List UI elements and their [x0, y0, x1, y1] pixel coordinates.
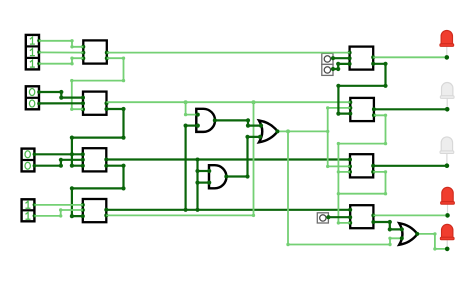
wire G2 feed vertical [195, 160, 199, 212]
wire U1 out2 to U2 in3 [70, 57, 125, 111]
wire pinA1 to U1 in1 [39, 39, 83, 48]
wire stub G1 in2 [184, 124, 200, 128]
wire pinD2 to U4 in2 [34, 208, 82, 217]
wire pinC1 to U3 in1 [34, 153, 82, 155]
input pin group A (value 111) [26, 35, 41, 70]
wire U2 out1 to U6 in1 [107, 101, 351, 103]
G2 output port [224, 175, 228, 179]
wire stub G2 in1 [195, 169, 211, 173]
wire U3 out1 to U7 in1 [106, 158, 350, 160]
input pin group D (value 11) [22, 199, 37, 221]
G1 in1 port [196, 113, 200, 117]
input pin group C (value 00) [22, 149, 37, 172]
wire pinA3 to U1 in3 [39, 57, 83, 66]
wire U6 out2 down to U8 in3 [337, 114, 388, 225]
subcircuit U5 [348, 47, 376, 70]
wire pinD1 to U4 in1 [34, 204, 82, 206]
wire U8 out2 to G4 in1 [373, 220, 404, 232]
wire U7 out1 to LED D3 [373, 165, 447, 167]
or-gate G3 [259, 121, 278, 143]
subcircuit U1 [81, 40, 109, 63]
LED D4 (on) [441, 187, 455, 217]
G1 output port [213, 118, 217, 122]
LED D1 (on) [440, 30, 454, 59]
wire pinB1 to U2 in1 [39, 90, 83, 100]
wire pinB2 to U2 in2 [39, 102, 83, 104]
LED D3 (off) [440, 137, 454, 168]
junction (U2 out1 / U4 out2 tie) [252, 100, 256, 104]
wire U5 out1 to LED D1 [373, 56, 444, 58]
input pin group B (value 00) [26, 86, 41, 109]
subcircuit U3 [81, 148, 109, 171]
and-gate G1 [196, 109, 215, 132]
output probe pin P1 (0) [322, 53, 333, 64]
wire G2 out to G3 in2 [226, 135, 262, 179]
wire G3 out east [277, 130, 329, 133]
junction (G3 out / OR2 branch) [286, 129, 290, 133]
wire U6 out1 to LED D2 [374, 108, 447, 110]
wire pinA2 to U1 in2 [39, 51, 83, 53]
LED D2 (off) [440, 82, 454, 111]
wire to U7 in2 [326, 165, 350, 168]
output probe pin P3 (0) [317, 213, 328, 223]
G4 in2 port [400, 236, 404, 240]
and-gate G2 [209, 165, 226, 188]
wire U2 out2 to U3 in3 [70, 107, 126, 168]
wire P2 to U5 in3 [331, 62, 350, 71]
wire U8 out1 to LED D4 [373, 214, 445, 216]
G3 output port [275, 129, 279, 133]
subcircuit U8 [348, 205, 375, 228]
output probe pin P2 (0) [322, 64, 333, 75]
wire U1 out1 to U5 in1 [107, 52, 350, 54]
wire U4 out1 to U8 in1 [106, 209, 350, 211]
wire G1 out to G3 in1 [215, 118, 263, 127]
wire U3 out2 to U4 in3 [70, 164, 126, 219]
wire G3 out to G4 in2 [286, 131, 402, 246]
wire stub G2 in2 [195, 181, 211, 185]
wire U5 out2 to U6 in3 [336, 62, 387, 116]
junction on pinC1 wire [70, 152, 74, 156]
or-gate G4 [399, 223, 417, 245]
wire G1 in2 net down to U4 out1 net [184, 126, 188, 212]
wire to U6 in2 [326, 106, 350, 109]
wire stub to U7 in3 [337, 170, 350, 173]
subcircuit U4 [81, 199, 109, 222]
wire P1 to U5 in2 [331, 56, 350, 60]
wire P3 to U8 in2 [326, 215, 350, 219]
G4 output port [415, 232, 419, 236]
junction (U3 out1 / G2 feed) [196, 158, 200, 162]
LED D5 (on) [440, 224, 454, 251]
wire U4 out2 up to U2 out1 net [106, 102, 255, 217]
subcircuit U7 [348, 154, 375, 177]
wire U7 out2 to U8 net [337, 170, 388, 195]
wire pinC2 to U3 in2 [34, 158, 82, 168]
wire branch to G1 in1 [184, 102, 198, 116]
junction (U2 out1 / G1 branch) [184, 100, 188, 104]
wire G4 out to LED D5 [417, 232, 445, 250]
subcircuit U2 [81, 92, 109, 115]
subcircuit U6 [348, 98, 376, 121]
wire G3 out vertical [327, 108, 329, 166]
